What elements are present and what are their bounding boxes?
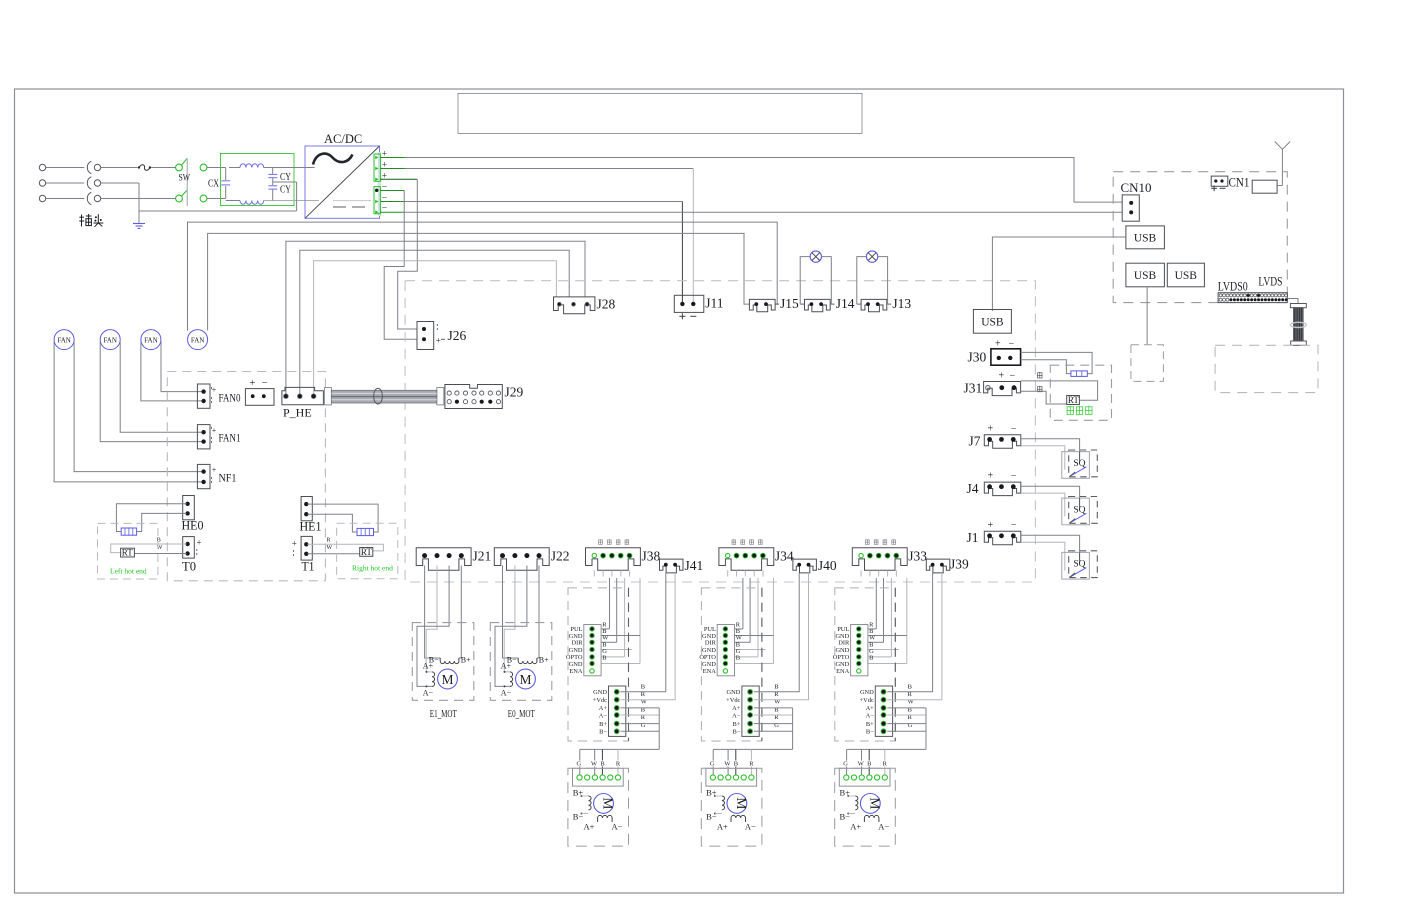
wire J30 pin1 to heater fuse (1021, 352, 1093, 373)
svg-text:A−: A− (423, 689, 434, 698)
wire USB2 down to dashed box (1146, 287, 1148, 345)
wire J1 to SQ3 (1021, 535, 1080, 552)
connector J21 (416, 548, 471, 571)
CN10 dashed enclosure (1113, 172, 1287, 303)
svg-text:GND: GND (860, 689, 874, 696)
svg-text:J39: J39 (950, 557, 969, 572)
AC/DC converter U1 (305, 146, 380, 218)
wire GND to aux conn (887, 573, 932, 692)
connector J29 (445, 385, 502, 409)
wire E1_MOT pin2 drop (426, 566, 437, 672)
svg-text:FAN0: FAN0 (219, 391, 241, 405)
svg-text:R: R (883, 761, 888, 768)
svg-text:A+: A+ (423, 662, 434, 671)
AC/DC output terminal block (+) (378, 152, 381, 216)
svg-text:FAN: FAN (191, 336, 205, 344)
wire SW to filter row3 (207, 198, 226, 200)
wire FAN2 leads to FAN1 connector (100, 342, 202, 442)
svg-text:W: W (858, 761, 865, 768)
svg-text:M: M (734, 797, 749, 809)
svg-text:+: + (988, 520, 994, 531)
wire lamp HL2 leads (857, 257, 867, 305)
connector NF1 (197, 464, 210, 488)
svg-text:HE1: HE1 (300, 520, 322, 534)
svg-text:J40: J40 (818, 558, 837, 573)
svg-text:B: B (774, 683, 778, 690)
motor connector Z (839, 768, 890, 786)
svg-text:R: R (327, 538, 331, 544)
svg-text:M: M (601, 797, 616, 809)
svg-text:B: B (734, 761, 738, 768)
svg-text:M: M (519, 672, 531, 687)
svg-text:B: B (602, 655, 606, 662)
antenna (1275, 142, 1283, 150)
wire SW to filter row1 (207, 167, 226, 169)
svg-text:+: + (212, 386, 217, 395)
wire FAN4 right lead to J15 (208, 233, 750, 330)
svg-text:B: B (641, 683, 645, 690)
driver dashed box Z (835, 588, 896, 741)
filter inductor L2 (bottom) (226, 200, 240, 202)
wire T0 pin1 to RT (111, 544, 187, 553)
svg-text:GND: GND (702, 661, 716, 668)
svg-text:−: − (1011, 423, 1017, 434)
svg-text:Left hot end: Left hot end (110, 567, 147, 576)
svg-text:A+: A+ (501, 662, 512, 671)
connector CN10 (1122, 195, 1139, 221)
wire GND to aux conn (754, 573, 799, 692)
connector J41 (660, 559, 684, 573)
connector T0 (183, 537, 195, 559)
fan motor FAN3 (141, 330, 161, 350)
svg-text:J11: J11 (705, 296, 723, 311)
stepper group Y (727, 570, 729, 576)
svg-text:B−: B− (733, 729, 741, 736)
power terminal X (609, 686, 626, 736)
limit switch SQ (middle) (1062, 498, 1090, 525)
svg-text:R: R (749, 761, 754, 768)
wire E0_MOT pin2 drop (504, 566, 515, 672)
svg-text:W: W (327, 545, 333, 551)
wire J4 to SQ2 (1021, 486, 1080, 498)
thermistor RT (heater) (1067, 396, 1080, 405)
svg-text:USB: USB (1134, 270, 1157, 282)
fan motor FAN1 (54, 330, 74, 350)
connector P_HE (282, 387, 324, 404)
svg-text:+: + (436, 336, 441, 346)
fan motor FAN4 (188, 330, 208, 350)
svg-text:−: − (1010, 371, 1016, 382)
svg-text:B+: B+ (461, 656, 471, 665)
wire USB1 to USB plug (992, 237, 1126, 311)
svg-text:−: − (1011, 520, 1017, 531)
wire T1 pin2 to RT (308, 553, 360, 555)
left hot end dashed box (98, 523, 158, 579)
wires phase to motor (621, 707, 660, 709)
svg-text:−: − (1009, 339, 1015, 350)
svg-text:W: W (724, 761, 731, 768)
svg-text:J41: J41 (685, 558, 704, 573)
svg-text:FAN: FAN (57, 336, 71, 344)
svg-text:J34: J34 (775, 549, 794, 564)
svg-text:J15: J15 (780, 296, 799, 311)
svg-text:B+: B+ (599, 721, 607, 728)
connector CN1 (1211, 176, 1228, 186)
capacitor CY lower (268, 185, 277, 187)
label wire colors above J38 (598, 539, 602, 541)
svg-text:RT: RT (122, 548, 133, 558)
svg-text:G: G (576, 761, 581, 768)
wire E1_MOT pin1 drop (425, 566, 441, 659)
wires phase to motor (887, 707, 926, 709)
lamp HL1 (810, 251, 821, 262)
svg-text:GND: GND (702, 647, 716, 654)
svg-text:GND: GND (835, 661, 849, 668)
wire HE1 pin1 to fuse (308, 504, 379, 532)
coil A (432, 672, 435, 687)
svg-text:A−: A− (866, 712, 875, 719)
svg-text:M: M (867, 797, 882, 809)
svg-text:RT: RT (1068, 395, 1079, 405)
cable loop ellipse (374, 388, 383, 404)
label wire colors above J34 (732, 539, 736, 541)
wire GND to aux conn (621, 573, 666, 692)
svg-text:B−: B− (866, 729, 874, 736)
svg-text:CX: CX (208, 179, 219, 190)
wire P_HE pin3 to J28 pin1 (314, 261, 557, 395)
svg-text:FAN: FAN (144, 336, 158, 344)
thermistor RT (right) (360, 548, 373, 557)
connector J26 (417, 322, 434, 350)
green pin stub wires (380, 157, 405, 159)
fuse left hot end (121, 528, 136, 535)
svg-text:J26: J26 (448, 328, 467, 343)
power terminal Y (742, 686, 759, 736)
connector HE1 (301, 497, 312, 521)
wire CY junction to ground bus (273, 181, 297, 183)
motor connector X (573, 768, 624, 786)
svg-text:FAN1: FAN1 (219, 431, 241, 445)
coil B (439, 658, 441, 661)
svg-text:ENA: ENA (703, 668, 717, 675)
svg-text:ENA: ENA (569, 668, 583, 675)
connector FAN1 (197, 425, 210, 449)
svg-text:G: G (710, 761, 715, 768)
svg-text:GND: GND (727, 689, 741, 696)
svg-text:DIR: DIR (705, 640, 717, 647)
svg-text:USB: USB (981, 317, 1004, 329)
wire +V2 to J11 pin2 (405, 168, 693, 170)
heater dashed box (1050, 365, 1111, 420)
display cable ring (1290, 322, 1306, 327)
connector J28 (554, 297, 595, 314)
wire P_HE pin2 to J28 pin2 (300, 250, 569, 395)
lamp HL2 (866, 251, 877, 262)
svg-text:+: + (988, 423, 994, 434)
wire FAN1 leads to NF1 (54, 342, 202, 482)
motor Y M circle (727, 794, 747, 814)
svg-text:B+: B+ (866, 721, 874, 728)
wire plug row2 to arc (46, 182, 85, 184)
svg-text:+: + (988, 471, 994, 482)
svg-text:G: G (641, 722, 646, 729)
svg-text:GND: GND (569, 647, 583, 654)
svg-text:+: + (999, 371, 1005, 382)
connector J40 (793, 559, 817, 573)
svg-text:J1: J1 (967, 530, 979, 545)
svg-text:A+: A+ (599, 705, 608, 712)
wire HE1 pin2 to fuse (308, 514, 358, 532)
motor dashed box X (568, 768, 629, 846)
svg-text:+: + (197, 538, 202, 548)
switch output contacts (200, 164, 207, 171)
wire label red (1037, 386, 1042, 388)
svg-text:B: B (867, 761, 871, 768)
driver dashed box X (568, 588, 629, 741)
wire T1 pin1 to RT (308, 544, 384, 551)
svg-text:LVDS: LVDS (1258, 274, 1282, 289)
svg-text:B: B (869, 655, 873, 662)
small dashed box below USB2 (1131, 345, 1164, 382)
wire fuse to switch SW (151, 167, 175, 169)
svg-text:CY: CY (280, 185, 291, 196)
wire J31 pin black to RT (1021, 381, 1098, 400)
svg-text:+: + (212, 466, 217, 475)
capacitor CY upper (272, 168, 274, 174)
wire P_HE pin1 to J28 pin3 (286, 241, 585, 395)
filter inductor L1 (top) (229, 167, 240, 169)
label wire colors above J33 (865, 539, 869, 541)
wire CY midpoint ground bus (139, 210, 297, 212)
svg-text:B+: B+ (539, 656, 549, 665)
svg-text:+Vdc: +Vdc (726, 697, 740, 704)
svg-text:CN1: CN1 (1229, 176, 1250, 190)
svg-text:ENA: ENA (836, 668, 850, 675)
connector J33 (852, 548, 907, 571)
driver connector Z (851, 625, 868, 676)
svg-text:J13: J13 (892, 296, 911, 311)
motor dashed box Y (701, 768, 762, 846)
svg-text:J14: J14 (836, 296, 855, 311)
svg-text:+Vdc: +Vdc (860, 697, 874, 704)
svg-text:USB: USB (1134, 233, 1157, 245)
svg-text:G: G (908, 722, 913, 729)
switch SW contacts (176, 164, 183, 171)
display cable top cap (1290, 304, 1306, 308)
wire row3 to switch SW (101, 198, 176, 200)
svg-text:J29: J29 (505, 385, 524, 400)
svg-text:G: G (843, 761, 848, 768)
connector J11 (674, 295, 704, 312)
wire LVDS to display cable (1287, 299, 1298, 304)
svg-text:NF1: NF1 (219, 471, 237, 485)
display cable bottom cap (1291, 341, 1307, 345)
wire plug row1 to arc (46, 167, 85, 169)
wires Z J-conn to driver (875, 578, 877, 629)
svg-text:P_HE: P_HE (283, 406, 312, 420)
motor dashed box Z (835, 768, 896, 846)
ribbon cable P_HE to J29 (324, 388, 331, 405)
svg-text:GND: GND (835, 647, 849, 654)
power terminal Z (875, 686, 892, 736)
fan motor FAN2 (100, 330, 120, 350)
title block rectangle (458, 94, 862, 134)
driver connector Y (717, 625, 734, 676)
motor M circle (438, 669, 458, 689)
dashed box E1_MOT (412, 623, 474, 701)
svg-text:B+: B+ (733, 721, 741, 728)
motor connector Y (706, 768, 757, 786)
plug mating arcs (87, 161, 91, 174)
wire E1_MOT pin3 drop (417, 566, 449, 687)
svg-text:HE0: HE0 (182, 519, 204, 533)
svg-text:−: − (262, 378, 268, 389)
svg-text:DIR: DIR (838, 640, 850, 647)
wire L2 to AC/DC (264, 200, 319, 202)
svg-text:CY: CY (280, 172, 291, 183)
wires phase to motor (754, 707, 793, 709)
wire E0_MOT pin3 drop (495, 566, 527, 687)
connector HE0 (183, 496, 195, 520)
thermistor RT (left) (121, 548, 135, 557)
svg-text:A−: A− (599, 712, 608, 719)
svg-text:J33: J33 (908, 549, 927, 564)
wire L1 to AC/DC (264, 167, 315, 169)
wire HE0 pin2 to fuse (137, 513, 187, 531)
connector J15 (749, 299, 775, 311)
USB port 3 (1167, 263, 1204, 287)
connector FAN0 (197, 384, 210, 408)
wire label black (1037, 372, 1042, 374)
svg-text:J7: J7 (969, 434, 981, 449)
svg-text:E1_MOT: E1_MOT (430, 709, 457, 720)
dashed box E0_MOT (490, 623, 552, 701)
wire FAN3 leads to FAN0 connector (141, 342, 202, 401)
wire E0_MOT pin1 drop (503, 566, 519, 659)
wire +Vdc to aux conn (621, 573, 676, 700)
svg-text:FAN: FAN (103, 336, 117, 344)
svg-text:+: + (212, 426, 217, 435)
left dashed enclosure box (167, 372, 325, 581)
svg-text:A+: A+ (732, 705, 741, 712)
wire J30 pin2 to heater fuse (1021, 360, 1071, 374)
svg-text:B: B (600, 761, 604, 768)
heater fuse (1071, 371, 1087, 377)
svg-text:T1: T1 (302, 560, 315, 574)
connector J22 (494, 548, 549, 571)
switch SW actuator (182, 158, 188, 165)
svg-text:A−: A− (612, 822, 623, 832)
svg-text:+: + (249, 378, 255, 389)
svg-text:M: M (441, 672, 453, 687)
wifi module box (1252, 180, 1277, 193)
svg-text:AC/DC: AC/DC (324, 132, 362, 146)
wire HE0 pin1 to fuse (116, 504, 186, 532)
svg-text:A+: A+ (584, 822, 595, 832)
svg-text:−: − (1011, 471, 1017, 482)
wire +Vdc to aux conn (887, 573, 942, 700)
wire -V2 to J11 pin1 (404, 201, 682, 203)
AC/DC output terminal block (-) (374, 187, 380, 214)
USB port 1 (1126, 226, 1165, 249)
main board dashed enclosure (405, 281, 1035, 582)
svg-text:J4: J4 (967, 481, 979, 496)
svg-text:B: B (736, 655, 740, 662)
plug connector 插头 : three socket circles (39, 164, 45, 170)
limit switch SQ (top) (1062, 452, 1090, 479)
svg-text:A+: A+ (850, 822, 861, 832)
svg-text:A−: A− (501, 689, 512, 698)
svg-text:J28: J28 (597, 297, 616, 312)
svg-text:Right hot end: Right hot end (352, 564, 393, 573)
wire +V1 to CN10 pin1 (405, 158, 1122, 203)
capacitor CX (225, 168, 227, 181)
earth wire from row2 (101, 182, 139, 184)
stepper group Z (860, 570, 862, 576)
svg-text:T0: T0 (182, 560, 196, 574)
svg-text:B: B (908, 683, 912, 690)
svg-text:+: + (292, 539, 297, 549)
wires Y J-conn to driver (742, 578, 744, 629)
svg-text:B−: B− (599, 729, 607, 736)
wire +V3 to J26 pin1 (398, 179, 418, 329)
fuse F on live wire (101, 167, 138, 169)
label 插头 (81, 215, 83, 227)
svg-text:DIR: DIR (571, 640, 583, 647)
right hot end dashed box (337, 523, 398, 579)
svg-text:A−: A− (732, 712, 741, 719)
display cable body (1293, 308, 1303, 341)
svg-text:+Vdc: +Vdc (593, 697, 607, 704)
plug pin circles (right of arcs) (94, 164, 100, 170)
connector T1 (301, 536, 312, 560)
svg-text:LVDS0: LVDS0 (1218, 279, 1248, 294)
wire T0 pin2 to RT (134, 553, 186, 555)
connector J14 (805, 299, 831, 311)
wire -V1 to J26 pin2 (384, 191, 417, 340)
svg-text:+: + (995, 339, 1001, 350)
svg-text:J31: J31 (964, 381, 983, 396)
connector J34 (719, 548, 774, 571)
svg-text:J30: J30 (968, 350, 987, 365)
svg-text:CN10: CN10 (1121, 180, 1152, 195)
label heating plate (green) (1067, 406, 1075, 408)
svg-text:J21: J21 (473, 549, 492, 564)
svg-text:A+: A+ (866, 705, 875, 712)
limit switch SQ (bottom) (1062, 552, 1090, 579)
driver connector X (584, 625, 601, 676)
display dashed box (1215, 345, 1318, 392)
driver dashed box Y (701, 588, 762, 741)
ground symbol (133, 223, 145, 225)
svg-text:RT: RT (361, 547, 372, 557)
USB port 2 (1126, 263, 1165, 287)
wire E1_MOT pin4 drop (459, 566, 461, 659)
motor X M circle (594, 794, 614, 814)
connector J38 (586, 548, 641, 571)
motor Z M circle (860, 794, 880, 814)
svg-text:A+: A+ (717, 822, 728, 832)
wire +Vdc to aux conn (754, 573, 809, 700)
svg-text:A−: A− (745, 822, 756, 832)
svg-text:W: W (591, 761, 598, 768)
wire E0_MOT pin4 drop (537, 566, 539, 659)
USB plug box (973, 310, 1011, 334)
connector J13 (861, 299, 887, 311)
motor M circle (516, 669, 536, 689)
wires X J-conn to driver (609, 578, 611, 629)
wire plug row3 to arc (46, 198, 85, 200)
